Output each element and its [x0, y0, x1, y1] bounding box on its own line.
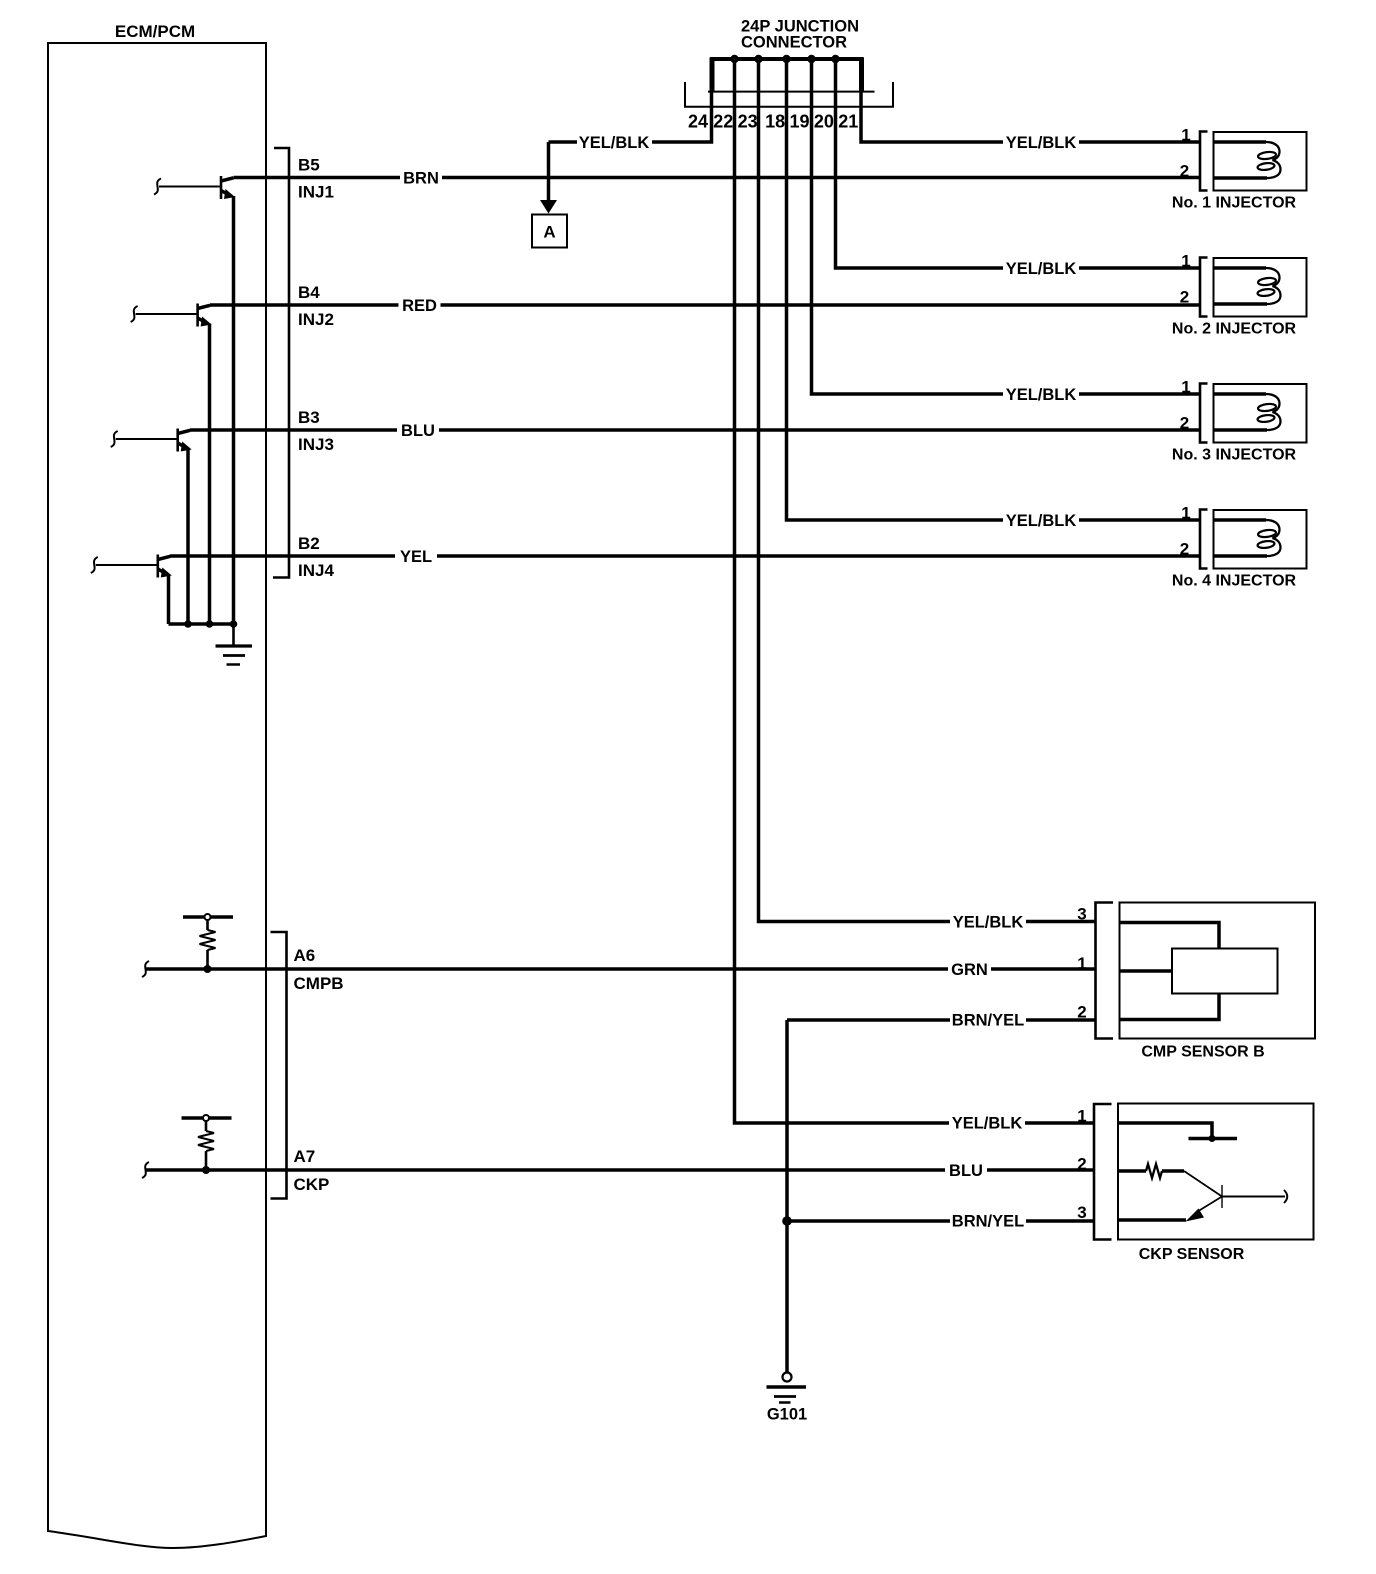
svg-text:22: 22: [713, 112, 733, 132]
svg-text:RED: RED: [402, 297, 437, 315]
svg-text:1: 1: [1077, 954, 1086, 973]
svg-text:CMP SENSOR B: CMP SENSOR B: [1141, 1044, 1264, 1061]
svg-text:GRN: GRN: [951, 961, 988, 979]
svg-text:B4: B4: [298, 283, 320, 302]
svg-text:BRN/YEL: BRN/YEL: [952, 1213, 1024, 1231]
svg-text:2: 2: [1077, 1155, 1086, 1174]
svg-text:A6: A6: [294, 946, 316, 965]
svg-text:YEL/BLK: YEL/BLK: [1006, 134, 1077, 152]
svg-text:G101: G101: [767, 1406, 807, 1424]
svg-text:INJ1: INJ1: [298, 183, 334, 202]
svg-text:24: 24: [688, 112, 708, 132]
svg-text:CONNECTOR: CONNECTOR: [741, 34, 847, 52]
svg-text:INJ3: INJ3: [298, 435, 334, 454]
svg-text:BRN/YEL: BRN/YEL: [952, 1012, 1024, 1030]
svg-text:18: 18: [765, 112, 785, 132]
svg-text:INJ2: INJ2: [298, 310, 334, 329]
svg-text:YEL/BLK: YEL/BLK: [952, 1115, 1023, 1133]
svg-text:No. 3 INJECTOR: No. 3 INJECTOR: [1172, 447, 1297, 464]
svg-text:YEL/BLK: YEL/BLK: [1006, 386, 1077, 404]
svg-text:CKP: CKP: [294, 1175, 330, 1194]
svg-text:19: 19: [789, 112, 809, 132]
svg-text:YEL/BLK: YEL/BLK: [1006, 260, 1077, 278]
svg-text:BLU: BLU: [401, 422, 435, 440]
svg-text:B2: B2: [298, 534, 320, 553]
svg-text:B5: B5: [298, 156, 320, 175]
svg-text:BLU: BLU: [949, 1162, 983, 1180]
svg-text:CMPB: CMPB: [294, 974, 344, 993]
svg-text:3: 3: [1077, 905, 1086, 924]
svg-text:INJ4: INJ4: [298, 561, 334, 580]
svg-text:3: 3: [1077, 1203, 1086, 1222]
svg-text:No. 1 INJECTOR: No. 1 INJECTOR: [1172, 195, 1297, 212]
svg-text:2: 2: [1077, 1003, 1086, 1022]
svg-text:YEL/BLK: YEL/BLK: [953, 914, 1024, 932]
svg-text:CKP SENSOR: CKP SENSOR: [1139, 1246, 1245, 1263]
svg-text:20: 20: [814, 112, 834, 132]
svg-text:BRN: BRN: [403, 170, 439, 188]
svg-text:ECM/PCM: ECM/PCM: [115, 22, 195, 41]
svg-text:YEL/BLK: YEL/BLK: [1006, 512, 1077, 530]
svg-text:21: 21: [838, 112, 858, 132]
svg-text:23: 23: [738, 112, 758, 132]
svg-text:B3: B3: [298, 408, 320, 427]
svg-text:A7: A7: [294, 1147, 316, 1166]
svg-text:No. 2 INJECTOR: No. 2 INJECTOR: [1172, 321, 1297, 338]
svg-text:YEL/BLK: YEL/BLK: [579, 134, 650, 152]
svg-text:A: A: [543, 223, 555, 242]
svg-text:No. 4 INJECTOR: No. 4 INJECTOR: [1172, 573, 1297, 590]
svg-text:1: 1: [1077, 1107, 1086, 1126]
svg-text:YEL: YEL: [400, 548, 432, 566]
